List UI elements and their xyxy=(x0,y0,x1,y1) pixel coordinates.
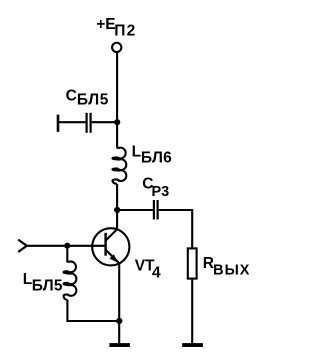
wire C_БЛ5 left lead xyxy=(58,121,86,123)
wire C_Р3 left lead xyxy=(117,209,153,211)
wire base node down to L_БЛ5 xyxy=(66,246,68,263)
transistor VT4 emitter arrow xyxy=(110,254,118,262)
svg-text:L: L xyxy=(132,144,141,161)
label L_БЛ5 xyxy=(23,271,63,295)
svg-text:БЛ6: БЛ6 xyxy=(141,150,172,167)
input arrow xyxy=(18,240,27,252)
transistor VT4 base bar xyxy=(104,233,106,256)
label R_ВЫХ xyxy=(203,255,251,278)
node junction base / L_БЛ5 xyxy=(64,243,70,249)
resistor R_ВЫХ xyxy=(188,248,197,278)
label +E_П2 xyxy=(96,16,136,39)
svg-text:ВЫХ: ВЫХ xyxy=(213,262,250,278)
ground left xyxy=(109,343,129,347)
capacitor C_БЛ5 plates xyxy=(87,113,91,133)
transistor VT4 collector diagonal xyxy=(106,229,117,240)
svg-text:+E: +E xyxy=(96,16,115,33)
inductor L_БЛ6 xyxy=(113,148,127,184)
wire R_ВЫХ to ground xyxy=(191,279,193,344)
node junction emitter / L_БЛ5 return xyxy=(116,318,122,324)
wire C_БЛ5 right lead xyxy=(92,121,117,123)
svg-text:С: С xyxy=(66,87,77,104)
capacitor C_БЛ5 left terminal bar xyxy=(57,115,60,132)
terminal +Eп2 xyxy=(112,43,121,52)
node junction collector / C_Р3 xyxy=(114,207,120,213)
label L_БЛ6 xyxy=(132,144,173,167)
wire emitter to ground xyxy=(118,263,120,344)
svg-text:Р3: Р3 xyxy=(152,184,170,200)
wire L_БЛ6 to collector xyxy=(116,184,118,229)
wire input to base xyxy=(27,245,105,247)
transistor VT4 emitter diagonal xyxy=(106,250,119,263)
svg-text:4: 4 xyxy=(152,265,161,282)
wire C_Р3 right lead with corner down to R_ВЫХ xyxy=(159,210,193,248)
ground right xyxy=(182,343,203,347)
wire L_БЛ5 return to emitter rail xyxy=(67,300,119,321)
node junction supply / C_БЛ5 xyxy=(114,119,120,125)
label С_Р3 xyxy=(142,176,169,200)
inductor L_БЛ5 xyxy=(64,261,77,299)
label С_БЛ5 xyxy=(66,87,109,108)
label VT_4 xyxy=(135,257,161,281)
wire supply rail down to L_БЛ6 xyxy=(116,52,118,148)
capacitor C_Р3 plates xyxy=(154,200,158,220)
svg-text:БЛ5: БЛ5 xyxy=(32,278,63,295)
svg-text:П2: П2 xyxy=(114,22,136,39)
svg-text:БЛ5: БЛ5 xyxy=(77,91,109,108)
transistor VT4 body circle xyxy=(92,228,129,265)
